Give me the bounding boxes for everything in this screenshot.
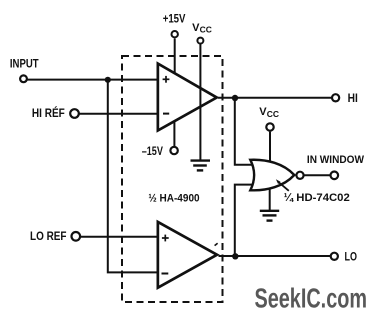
wire: upper comparator output to HI terminal — [218, 97, 332, 99]
svg-text:LO REF: LO REF — [30, 231, 67, 243]
wire: NOR gate bottom to ground — [269, 189, 271, 210]
label LO REF — [30, 231, 67, 243]
svg-text:½ HA-4900: ½ HA-4900 — [148, 193, 199, 205]
wire: INPUT to upper comparator + input — [27, 79, 158, 81]
terminal: VCC (comparator) — [197, 38, 203, 44]
op-amp U1A: upper comparator triangle — [157, 61, 220, 133]
terminal: VCC (NOR gate) — [266, 123, 273, 130]
nor gate U2: 1/4 HD-74C02 — [250, 160, 294, 191]
label INPUT — [10, 58, 39, 70]
svg-text:HI RÉF: HI RÉF — [32, 107, 65, 120]
label half HA-4900 — [148, 193, 199, 205]
label VCC (comparator) — [192, 22, 212, 35]
node: LO output junction — [232, 253, 238, 259]
annotation arrow on NOR gate — [276, 179, 289, 191]
terminal: HI — [332, 94, 339, 101]
stray mark near U1B tip — [215, 243, 218, 245]
svg-text:SeekIC.com: SeekIC.com — [255, 282, 368, 313]
wire: NOR output bubble to IN WINDOW terminal — [305, 174, 331, 176]
svg-text:¼ HD-74C02: ¼ HD-74C02 — [284, 192, 350, 204]
op-amp U1B: lower comparator triangle — [157, 220, 220, 290]
ground (NOR gate) — [260, 211, 279, 221]
svg-text:+15V: +15V — [163, 14, 186, 26]
label LO — [345, 251, 358, 263]
svg-text:–15V: –15V — [142, 146, 163, 158]
nor gate output inversion bubble — [296, 172, 303, 179]
terminal: HI REF — [70, 109, 79, 118]
svg-text:LO: LO — [345, 251, 358, 263]
svg-text:CC: CC — [200, 25, 212, 35]
dashed box around HA-4900 comparators — [122, 56, 223, 302]
label quarter HD-74C02 — [284, 192, 350, 204]
wire: -15V supply to upper comparator bottom — [173, 122, 175, 146]
node: input junction dot — [105, 77, 111, 83]
label -15V — [142, 146, 163, 158]
terminal: LO — [331, 253, 338, 260]
svg-text:HI: HI — [348, 93, 358, 105]
label VCC (NOR gate) — [259, 106, 279, 119]
label +15V — [163, 14, 186, 26]
wire: LO REF to lower comparator + input — [80, 236, 158, 238]
wire: LO junction up to NOR gate input 2 — [235, 185, 254, 257]
svg-text:INPUT: INPUT — [10, 58, 39, 70]
watermark SeekIC.com — [255, 282, 368, 313]
wire: VCC to NOR gate top — [269, 132, 271, 162]
terminal: IN WINDOW — [331, 172, 339, 180]
svg-text:CC: CC — [267, 109, 279, 119]
wire: VCC down through comparator to ground — [199, 44, 201, 160]
wire: lower comparator output to LO terminal — [219, 255, 331, 257]
label HI REF — [32, 107, 65, 120]
terminal: LO REF — [72, 232, 81, 241]
label HI — [348, 93, 358, 105]
terminal: -15V — [170, 147, 177, 154]
wire: HI junction down to NOR gate input 1 — [235, 98, 254, 165]
svg-text:IN WINDOW: IN WINDOW — [307, 154, 365, 166]
terminal: +15V — [172, 31, 178, 37]
label IN WINDOW — [307, 154, 365, 166]
node: HI output junction — [232, 95, 238, 101]
wire: HI REF to upper comparator - input — [79, 113, 158, 115]
wire: +15V supply to upper comparator top — [174, 38, 176, 73]
ground (comparator VCC return) — [191, 161, 211, 171]
terminal: INPUT — [20, 75, 27, 82]
wire: input junction down to lower comparator - input — [108, 80, 158, 273]
